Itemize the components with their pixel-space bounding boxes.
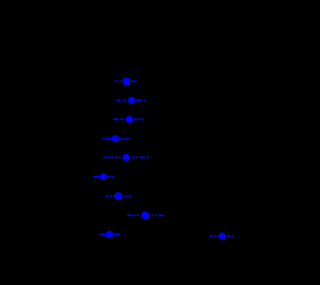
errorbar row 8 — [127, 211, 164, 219]
errorbar row 4 — [103, 135, 129, 142]
errorbar row 2 — [116, 97, 145, 104]
errorbar row 1 — [115, 78, 137, 85]
errorbar row 10 — [210, 233, 234, 240]
errorbar row 7 — [106, 192, 131, 200]
errorbar row 6 — [93, 173, 113, 180]
errorbar row 9 — [99, 231, 120, 238]
errorbar row 3 — [113, 116, 144, 123]
errorbar row 5 — [103, 154, 149, 161]
